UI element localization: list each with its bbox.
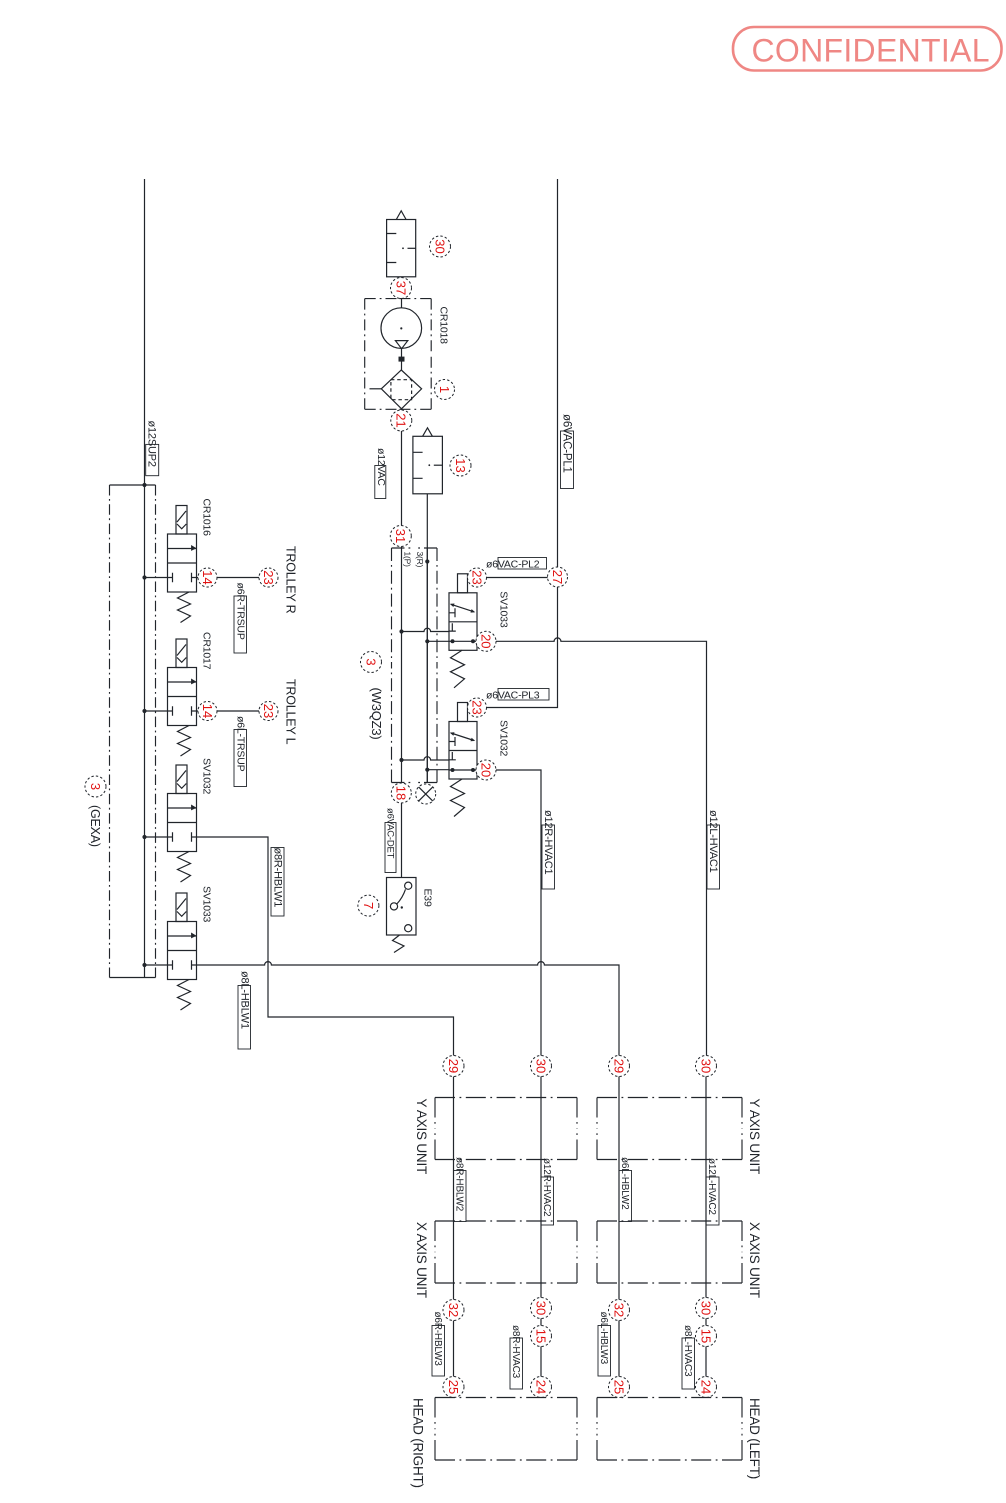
HEAD (LEFT) box [597, 1398, 742, 1461]
node 23 TROLLEY R [259, 568, 278, 587]
svg-text:Y AXIS UNIT: Y AXIS UNIT [414, 1099, 429, 1175]
wire vacuum line ø6VAC-PL1 [487, 179, 558, 708]
svg-text:ø12L-HVAC2: ø12L-HVAC2 [706, 1158, 717, 1215]
node 23 SV1032 [468, 698, 487, 717]
svg-text:ø6VAC-PL3: ø6VAC-PL3 [486, 690, 540, 702]
spring return SV1032 [451, 779, 465, 817]
label ø12L-HVAC2 [706, 1177, 719, 1225]
svg-text:ø12R-HVAC1: ø12R-HVAC1 [542, 810, 554, 875]
X AXIS UNIT box (right head) [435, 1221, 577, 1283]
node 23 SV1033 [468, 568, 487, 587]
svg-text:23: 23 [469, 570, 484, 584]
wire supply line ø12SUP2 [144, 179, 146, 978]
svg-text:14: 14 [200, 570, 215, 584]
node 30 right lower [531, 1298, 552, 1319]
label ø12SUP2 [146, 444, 159, 475]
port-3 stub SV1033 [458, 574, 468, 593]
node 27 [548, 567, 568, 587]
wire CR1016 out to trolley R [197, 577, 260, 579]
svg-text:ø6L-TRSUP: ø6L-TRSUP [235, 716, 247, 772]
label ø8R-HBLW2 [454, 1171, 467, 1222]
node 23 TROLLEY L [259, 702, 278, 721]
svg-text:21: 21 [394, 413, 409, 427]
node 24 left [696, 1377, 717, 1398]
label ø6VAC-PL2 (horizontal) [498, 558, 547, 570]
svg-text:25: 25 [611, 1380, 626, 1394]
node 3 (GEXA) [85, 776, 106, 797]
node 29 left-head blow [609, 1056, 630, 1077]
node 20 SV1032 [476, 760, 496, 780]
label ø6R-HBLW3 [432, 1326, 445, 1377]
svg-text:ø8L-HVAC3: ø8L-HVAC3 [682, 1325, 693, 1377]
node 30 right-head vac [531, 1056, 552, 1077]
label ø12VAC [375, 466, 386, 499]
CONFIDENTIAL stamp [733, 27, 1002, 71]
label ø6R-TRSUP [234, 596, 247, 653]
inline connector square [399, 357, 405, 362]
wire CR1016 inlet [145, 577, 168, 579]
label ø12R-HVAC1 [542, 825, 555, 889]
assembly boundary (GEXA) box [110, 485, 156, 978]
component vacuum valve (node 13) [423, 428, 433, 437]
svg-text:ø8R-HVAC3: ø8R-HVAC3 [510, 1325, 521, 1379]
wire manifold P branch to SV1033 (hop at R gallery) [402, 628, 450, 631]
wire ø6VAC-PL2 run to node 27 [487, 577, 558, 579]
vacuum pump CR1018 [381, 308, 422, 349]
svg-text:32: 32 [446, 1303, 461, 1317]
svg-text:TROLLEY L: TROLLEY L [284, 679, 298, 745]
solenoid coil SV1032 [176, 765, 187, 794]
node 30 left-head vac [696, 1056, 717, 1077]
junction nodes manifold galleries [399, 629, 403, 633]
svg-text:SV1032: SV1032 [498, 720, 510, 757]
node 32 left [609, 1300, 630, 1321]
svg-text:3(R): 3(R) [415, 552, 425, 568]
node 24 right [531, 1377, 552, 1398]
HEAD (RIGHT) box [435, 1398, 577, 1461]
svg-text:13: 13 [453, 458, 468, 472]
label ø8R-HBLW1 [271, 848, 284, 917]
svg-text:24: 24 [698, 1380, 713, 1394]
node 32 right [443, 1300, 464, 1321]
label ø12L-HVAC1 [707, 825, 720, 889]
filter diamond [381, 370, 421, 409]
svg-text:1(P): 1(P) [403, 552, 413, 568]
svg-text:30: 30 [432, 239, 447, 253]
label ø8L-HBLW1 [238, 986, 251, 1050]
wire ø8L-HBLW1 net (hops at x=268 and x=541) [197, 962, 620, 1056]
svg-text:20: 20 [478, 634, 493, 648]
stub to filter [370, 388, 382, 390]
svg-text:31: 31 [393, 529, 408, 543]
wire ø12L-HVAC1 net (hop at x=557.5) [496, 638, 707, 1056]
svg-text:TROLLEY R: TROLLEY R [284, 546, 298, 614]
Y AXIS UNIT box (left head) [597, 1098, 742, 1160]
node 7 [358, 895, 379, 916]
node 21 [391, 410, 412, 431]
svg-text:27: 27 [550, 570, 565, 584]
svg-text:ø6VAC-PL1: ø6VAC-PL1 [561, 414, 573, 473]
junction nodes on supply line [142, 483, 146, 487]
svg-text:ø12VAC: ø12VAC [375, 448, 387, 486]
svg-text:30: 30 [698, 1301, 713, 1315]
label ø6VAC-DET [385, 823, 396, 873]
svg-text:ø8L-HBLW1: ø8L-HBLW1 [239, 971, 251, 1029]
node 30 [430, 236, 451, 257]
assembly box CR1018 [365, 299, 432, 410]
svg-text:E39: E39 [422, 889, 434, 907]
svg-text:18: 18 [394, 786, 409, 800]
wire manifold R branch to SV1032 [427, 769, 449, 771]
port-3 stub SV1032 [458, 703, 468, 722]
svg-text:ø6L-HBLW2: ø6L-HBLW2 [619, 1157, 630, 1210]
wire ø8R-HBLW1 net [197, 837, 454, 1056]
node 15 left [696, 1326, 717, 1347]
spring return SV1033 [178, 980, 191, 1011]
svg-text:SV1033: SV1033 [201, 886, 213, 923]
label ø6L-TRSUP [234, 730, 247, 787]
svg-text:32: 32 [611, 1303, 626, 1317]
svg-text:15: 15 [698, 1329, 713, 1343]
node 15 right [531, 1326, 552, 1347]
node 18 manifold P out [391, 783, 411, 803]
node 20 SV1033 [476, 631, 496, 651]
svg-text:30: 30 [698, 1059, 713, 1073]
svg-text:SV1032: SV1032 [201, 758, 213, 795]
svg-text:14: 14 [200, 704, 215, 718]
svg-text:ø12R-HVAC2: ø12R-HVAC2 [541, 1158, 552, 1217]
svg-text:(GEXA): (GEXA) [88, 805, 102, 847]
svg-text:X AXIS UNIT: X AXIS UNIT [414, 1222, 429, 1298]
svg-text:7: 7 [361, 902, 376, 909]
svg-text:ø8R-HBLW1: ø8R-HBLW1 [272, 848, 284, 908]
svg-text:23: 23 [261, 570, 276, 584]
svg-text:30: 30 [533, 1301, 548, 1315]
valve body SV1033 [168, 922, 197, 980]
plugged port symbol [416, 784, 436, 804]
svg-text:(W3QZ3): (W3QZ3) [369, 688, 384, 740]
wire manifold R branch to SV1033 [427, 640, 449, 642]
wire pump train vertical [401, 277, 403, 309]
component filter/regulator (node 30) [396, 211, 406, 220]
svg-text:30: 30 [533, 1059, 548, 1073]
svg-text:3: 3 [88, 783, 103, 790]
wires head columns [453, 1321, 455, 1377]
svg-text:HEAD (RIGHT): HEAD (RIGHT) [411, 1398, 426, 1488]
svg-text:ø12SUP2: ø12SUP2 [146, 421, 158, 467]
node 13 [450, 455, 471, 476]
wires axis-unit columns [453, 1077, 455, 1300]
svg-text:CR1018: CR1018 [438, 307, 450, 345]
svg-text:X AXIS UNIT: X AXIS UNIT [747, 1222, 762, 1298]
label ø6VAC-PL3 (horizontal) [498, 689, 549, 701]
svg-text:ø6R-TRSUP: ø6R-TRSUP [235, 583, 247, 640]
spring return SV1032 [178, 852, 191, 883]
svg-text:HEAD (LEFT): HEAD (LEFT) [747, 1398, 762, 1479]
label ø12R-HVAC2 [541, 1177, 554, 1225]
svg-text:15: 15 [533, 1329, 548, 1343]
node 37 [391, 278, 412, 299]
svg-text:Y AXIS UNIT: Y AXIS UNIT [747, 1099, 762, 1175]
wire ø12R-HVAC1 net [496, 770, 541, 1056]
spring return CR1017 [178, 726, 191, 757]
label ø8L-HVAC3 [682, 1338, 695, 1389]
wire CR1017 out to trolley L [197, 710, 260, 712]
svg-text:23: 23 [261, 704, 276, 718]
manifold box 3 (W3QZ3) [392, 548, 438, 783]
valve body SV1032 [449, 722, 477, 780]
svg-text:23: 23 [469, 700, 484, 714]
svg-text:ø12L-HVAC1: ø12L-HVAC1 [707, 810, 719, 873]
solenoid coil CR1017 [176, 639, 187, 668]
node 1 [435, 380, 455, 400]
label ø8R-HVAC3 [510, 1338, 523, 1389]
node 3 (W3QZ3) [361, 652, 382, 673]
svg-text:37: 37 [393, 281, 408, 295]
label ø6VAC-PL1 [561, 431, 574, 489]
wire manifold R gallery top [426, 548, 428, 783]
spring return SV1033 [451, 650, 465, 688]
wire comp13 to manifold R gallery [426, 494, 428, 783]
svg-text:CONFIDENTIAL: CONFIDENTIAL [752, 33, 990, 69]
svg-text:29: 29 [446, 1059, 461, 1073]
svg-text:3: 3 [363, 658, 378, 665]
Y AXIS UNIT box (right head) [435, 1098, 577, 1160]
svg-text:29: 29 [611, 1059, 626, 1073]
svg-text:24: 24 [533, 1380, 548, 1394]
node 25 left [609, 1377, 630, 1398]
valve body CR1016 [168, 534, 197, 592]
node 14 CR1016 outlet [198, 568, 217, 587]
valve body SV1032 [168, 794, 197, 852]
svg-text:ø6L-HBLW3: ø6L-HBLW3 [598, 1312, 609, 1365]
node 31 [390, 526, 411, 547]
node 29 right-head blow [443, 1056, 464, 1077]
spring return CR1016 [178, 592, 191, 623]
pressure switch E39 [387, 878, 417, 936]
svg-text:ø8R-HBLW2: ø8R-HBLW2 [454, 1157, 465, 1212]
solenoid coil SV1033 [176, 893, 187, 922]
label ø6L-HBLW3 [598, 1326, 611, 1377]
node 30 left lower [696, 1298, 717, 1319]
svg-text:20: 20 [478, 763, 493, 777]
valve body CR1017 [168, 668, 197, 726]
svg-text:ø6R-HBLW3: ø6R-HBLW3 [432, 1312, 443, 1367]
svg-text:1: 1 [437, 386, 452, 393]
svg-text:25: 25 [446, 1380, 461, 1394]
svg-text:CR1017: CR1017 [201, 632, 213, 670]
svg-text:SV1033: SV1033 [498, 591, 510, 628]
node 14 CR1017 outlet [198, 702, 217, 721]
wire CR1017 inlet [145, 710, 168, 712]
X AXIS UNIT box (left head) [597, 1221, 742, 1283]
solenoid coil CR1016 [176, 506, 187, 535]
wire SV1033 inlet [145, 964, 168, 966]
svg-text:CR1016: CR1016 [201, 499, 213, 537]
wire SV1032 inlet [145, 836, 168, 838]
node 25 right [443, 1377, 464, 1398]
label ø6L-HBLW2 [619, 1171, 632, 1222]
svg-text:ø6VAC-DET: ø6VAC-DET [385, 808, 396, 859]
valve body SV1033 [449, 593, 477, 651]
svg-text:ø6VAC-PL2: ø6VAC-PL2 [486, 559, 540, 571]
wire manifold P branch to SV1032 (hop at R gallery) [402, 757, 450, 760]
